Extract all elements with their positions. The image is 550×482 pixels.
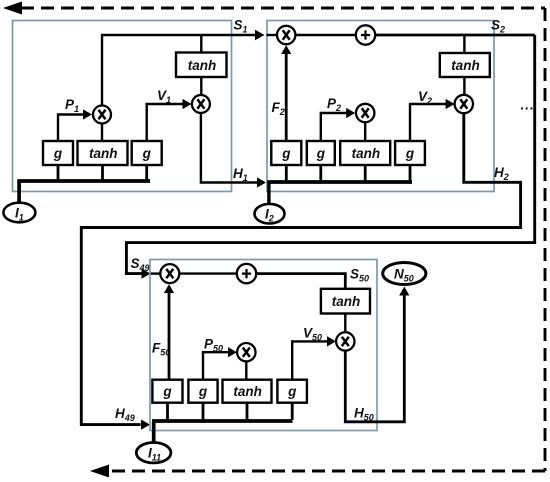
- svg-text:g: g: [162, 384, 172, 399]
- arrowhead V2 into X: [446, 99, 455, 109]
- wire X to +: [295, 34, 355, 36]
- dashed feedback border bottom: [108, 470, 545, 473]
- wire tanh to X (V50): [344, 314, 346, 333]
- wire tanh tap from S1: [200, 35, 202, 53]
- svg-text:tanh: tanh: [233, 384, 262, 399]
- wire P1 arm: [58, 115, 83, 142]
- arrowhead H1 into cell 2: [257, 177, 266, 187]
- input I1: [3, 203, 35, 223]
- gate g (P2): [307, 141, 335, 165]
- arrowhead S1 into cell 2: [255, 30, 265, 41]
- adder + cell2: [356, 25, 375, 44]
- wire S2 top: [375, 34, 535, 37]
- wire S2 return path: [126, 35, 534, 274]
- gate tanh lower cell2: [340, 141, 390, 165]
- wire V1 arm: [147, 104, 183, 141]
- svg-text:g: g: [316, 146, 326, 161]
- arrowhead F50 into X: [164, 284, 174, 293]
- wire V2 arm: [410, 104, 446, 141]
- gate tanh lower cell3: [223, 380, 272, 403]
- adder + cell3: [237, 264, 256, 283]
- output N50: [383, 263, 426, 285]
- svg-text:g: g: [198, 384, 208, 399]
- gate tanh lower cell1: [78, 141, 128, 165]
- gate g (P50): [188, 380, 217, 403]
- multiplier X (S49): [160, 264, 179, 283]
- wire F50 arrow: [168, 292, 171, 380]
- cell 1 boundary (blue): [13, 21, 232, 192]
- dashed feedback border right: [544, 8, 547, 471]
- multiplier X (V1): [192, 95, 210, 113]
- input I2: [255, 204, 285, 224]
- svg-text:tanh: tanh: [352, 146, 381, 161]
- stub g(F50) to bus: [166, 403, 169, 420]
- svg-text:g: g: [142, 146, 152, 161]
- stub g(P2) to bus: [319, 165, 322, 181]
- wire V50 arm: [292, 341, 327, 379]
- wire P50 arm: [203, 352, 228, 380]
- stub g(F2) to bus: [285, 165, 288, 181]
- stub tanh to bus: [364, 165, 367, 181]
- stub g(V2) to bus: [409, 165, 412, 181]
- svg-text:g: g: [53, 146, 63, 161]
- wire X(P2) to tanh: [364, 122, 366, 141]
- multiplier X (F2): [277, 26, 295, 44]
- wire I11 stem: [152, 421, 156, 444]
- wire S50 to tanh: [256, 274, 345, 289]
- arrowhead V50 into X: [327, 336, 336, 346]
- wire X(P50) to tanh: [245, 361, 247, 379]
- wire tanh tap from S2: [463, 35, 465, 53]
- wire H1 out: [201, 113, 257, 183]
- stub tanh to bus: [101, 165, 104, 180]
- arrowhead F2 into X: [281, 45, 291, 54]
- wire I2 stem: [267, 182, 270, 205]
- bus cell1: [17, 179, 150, 183]
- arrowhead P2 into X: [346, 108, 355, 118]
- svg-text:tanh: tanh: [451, 58, 480, 73]
- dashed feedback border top: [21, 7, 545, 10]
- arrowhead into N50: [399, 287, 409, 296]
- svg-text:...: ...: [521, 98, 535, 113]
- arrowhead H49 into cell 3: [141, 420, 150, 430]
- wire tanh to X (V2): [463, 77, 465, 95]
- wire tanh to X (V1): [200, 77, 202, 95]
- wire H50 to N50: [345, 293, 404, 422]
- multiplier X (V50): [336, 332, 354, 350]
- gate g (F2): [271, 141, 301, 165]
- gate g (V1): [132, 141, 162, 165]
- svg-text:g: g: [281, 146, 291, 161]
- gate g (F50): [152, 380, 182, 403]
- wire into X (F2): [267, 34, 278, 36]
- gate tanh upper cell1: [176, 53, 227, 78]
- arrowhead P50 into X: [228, 347, 237, 357]
- dashed border arrowhead top-left: [3, 2, 22, 15]
- wire X to + cell3: [179, 272, 237, 274]
- multiplier X (P2): [356, 104, 374, 122]
- svg-text:tanh: tanh: [332, 294, 361, 309]
- svg-text:g: g: [405, 146, 415, 161]
- cell 3 boundary (blue): [150, 260, 377, 431]
- arrowhead P1 into X: [83, 109, 92, 119]
- arrowhead S49 into X: [142, 269, 151, 279]
- cell 2 boundary (blue): [267, 21, 494, 192]
- wire F2 arrow: [285, 53, 288, 141]
- gate g (V50): [277, 380, 307, 403]
- gate g (V2): [395, 141, 425, 165]
- svg-text:tanh: tanh: [89, 146, 118, 161]
- bus cell2: [267, 180, 412, 184]
- gate tanh upper cell2: [440, 53, 490, 77]
- stub tanh to bus: [246, 403, 249, 420]
- stub g(V1) to bus: [145, 165, 148, 180]
- wire I1 stem: [17, 181, 21, 204]
- multiplier X (P1): [93, 106, 111, 124]
- dashed border arrowhead bottom-left: [90, 465, 109, 478]
- arrowhead V1 into X: [183, 99, 192, 109]
- svg-text:g: g: [287, 384, 297, 399]
- stub g(P1) to bus: [57, 165, 60, 180]
- stub g(P50) to bus: [202, 403, 205, 420]
- multiplier X (V2): [455, 95, 473, 113]
- wire S1 top: [102, 35, 256, 141]
- bus cell3: [152, 419, 293, 423]
- wire H2 return path: [81, 113, 520, 424]
- multiplier X (P50): [237, 343, 255, 361]
- wire P2 arm: [321, 113, 347, 141]
- gate g (P1): [43, 141, 73, 165]
- svg-text:tanh: tanh: [188, 58, 217, 73]
- gate tanh upper cell3: [321, 289, 370, 314]
- stub g(V50) to bus: [291, 403, 294, 420]
- input I11: [136, 443, 171, 463]
